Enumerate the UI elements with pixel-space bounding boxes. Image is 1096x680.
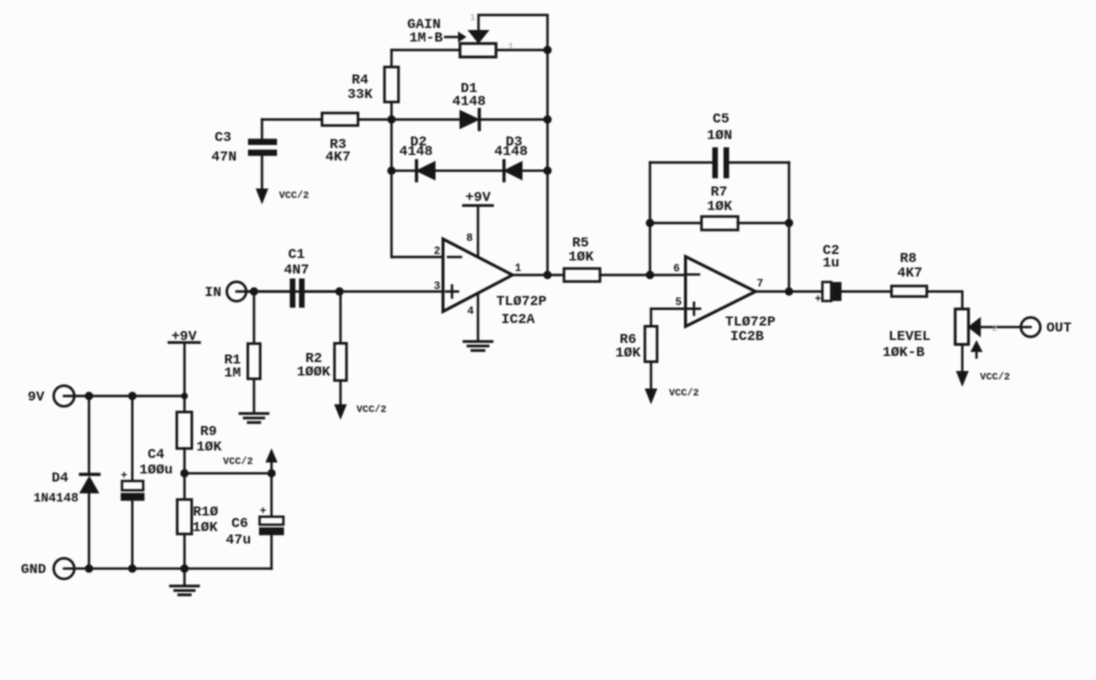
svg-text:7: 7 xyxy=(757,279,764,291)
vcc/2 arrow below C3 xyxy=(256,189,267,203)
svg-text:OUT: OUT xyxy=(1046,321,1071,337)
svg-text:5: 5 xyxy=(675,297,682,309)
plus sign IC2A xyxy=(446,286,458,298)
op-amp U IC2B xyxy=(686,257,756,327)
svg-text:4148: 4148 xyxy=(494,144,528,160)
wire feedback top to C5 xyxy=(650,161,713,163)
svg-text:4148: 4148 xyxy=(399,144,433,160)
resistor R2 xyxy=(339,292,341,344)
svg-text:47N: 47N xyxy=(211,150,236,166)
node junction output stage2 xyxy=(785,287,793,295)
op-amp U IC2A xyxy=(443,239,513,312)
capacitor C2 electrolytic xyxy=(822,282,831,301)
node junction R7 right xyxy=(785,219,793,227)
ground symbol IC2A xyxy=(464,340,492,343)
wire top feedback from gain wiper xyxy=(479,15,548,275)
capacitor C4 electrolytic xyxy=(131,396,133,481)
vcc/2 arrow below LEVEL xyxy=(957,372,968,386)
resistor R10 xyxy=(183,473,185,499)
wire wiper to OUT xyxy=(980,326,1030,328)
wire feedback left vertical xyxy=(649,163,651,276)
label arrow GAIN xyxy=(444,36,458,38)
wire IC2A output xyxy=(513,274,548,276)
svg-text:1: 1 xyxy=(508,42,514,52)
wire left vertical R4 branch xyxy=(390,50,392,257)
svg-text:1ØK-B: 1ØK-B xyxy=(882,345,925,361)
vcc/2 arrow below R6 xyxy=(645,389,656,403)
svg-text:1ØK: 1ØK xyxy=(568,250,594,266)
svg-text:VCC/2: VCC/2 xyxy=(980,372,1010,384)
svg-text:R1Ø: R1Ø xyxy=(193,505,219,521)
svg-text:1ØN: 1ØN xyxy=(707,128,732,144)
svg-text:1ØK: 1ØK xyxy=(192,520,218,536)
wire pot bottom lead xyxy=(961,344,963,371)
resistor R4 xyxy=(385,67,399,102)
junction pot-right on vertical xyxy=(543,46,551,54)
svg-text:4148: 4148 xyxy=(452,94,486,110)
svg-text:9V: 9V xyxy=(28,390,45,406)
svg-text:+9V: +9V xyxy=(171,329,197,345)
capacitor C1 xyxy=(290,279,296,308)
svg-text:8: 8 xyxy=(466,233,473,245)
wire GND rail xyxy=(64,567,272,569)
svg-text:4: 4 xyxy=(467,306,474,318)
svg-text:2: 2 xyxy=(992,324,997,334)
node junction D3 right xyxy=(543,167,551,175)
svg-text:33K: 33K xyxy=(347,87,373,103)
ground symbol bottom xyxy=(183,569,185,586)
svg-text:1ØK: 1ØK xyxy=(615,346,641,362)
potentiometer GAIN body xyxy=(460,44,496,58)
node junction D1 right xyxy=(543,115,551,123)
pin 5 wire xyxy=(651,309,686,327)
node junction R7 left xyxy=(646,219,654,227)
svg-text:VCC/2: VCC/2 xyxy=(223,456,253,468)
vcc/2 arrow below R2 xyxy=(335,405,346,419)
diode D2 xyxy=(392,169,417,171)
node junction D4 top xyxy=(85,392,93,400)
svg-text:1: 1 xyxy=(470,13,476,23)
diode D1 xyxy=(392,118,461,120)
svg-text:IC2B: IC2B xyxy=(730,329,764,345)
svg-text:C3: C3 xyxy=(215,130,232,146)
svg-text:IC2A: IC2A xyxy=(501,312,535,328)
svg-text:+9V: +9V xyxy=(465,190,491,206)
svg-text:1ØK: 1ØK xyxy=(707,199,733,215)
resistor R3 xyxy=(322,113,358,126)
potentiometer LEVEL body xyxy=(955,309,968,344)
resistor R6 xyxy=(645,326,657,361)
svg-text:VCC/2: VCC/2 xyxy=(279,190,309,202)
node junction R1 xyxy=(250,287,258,295)
minus sign IC2A xyxy=(448,256,461,258)
pin 3 wire xyxy=(246,290,443,292)
svg-text:4N7: 4N7 xyxy=(284,263,309,279)
node junction C6 top xyxy=(267,469,275,477)
svg-text:2: 2 xyxy=(434,246,441,258)
resistor R8 xyxy=(892,286,927,297)
potentiometer LEVEL wiper arrow xyxy=(969,318,981,337)
node junction C4 top xyxy=(128,392,136,400)
svg-text:4K7: 4K7 xyxy=(897,266,922,282)
node junction GND symbol xyxy=(180,564,188,572)
svg-text:C4: C4 xyxy=(148,447,165,463)
connector GND xyxy=(54,558,75,579)
node junction R5/feedback xyxy=(646,271,654,279)
pin 2 wire xyxy=(392,256,443,258)
wire D2-D3 xyxy=(435,169,504,171)
vcc/2 up arrow xyxy=(270,462,272,473)
connector OUT xyxy=(1021,317,1040,336)
node junction R2 xyxy=(335,287,343,295)
capacitor C6 electrolytic xyxy=(270,473,272,516)
svg-text:1N4148: 1N4148 xyxy=(33,492,78,506)
svg-text:+: + xyxy=(815,294,822,306)
svg-text:R9: R9 xyxy=(200,424,217,440)
svg-text:VCC/2: VCC/2 xyxy=(669,388,699,400)
svg-text:D4: D4 xyxy=(52,471,69,487)
svg-text:3: 3 xyxy=(434,281,441,293)
ground symbol R1 xyxy=(240,412,268,415)
svg-text:6: 6 xyxy=(673,264,680,276)
node junction D2 left xyxy=(387,167,395,175)
svg-text:1ØØu: 1ØØu xyxy=(139,463,173,479)
wire 9V rail xyxy=(64,395,185,397)
svg-text:1u: 1u xyxy=(823,256,840,272)
svg-text:4K7: 4K7 xyxy=(325,150,350,166)
svg-text:1: 1 xyxy=(515,263,522,275)
node junction D4 bottom xyxy=(85,564,93,572)
connector IN xyxy=(227,282,246,301)
power +9V symbol above IC2A xyxy=(464,204,493,207)
svg-text:C6: C6 xyxy=(231,516,248,532)
capacitor C3 xyxy=(261,120,263,139)
minus sign IC2B xyxy=(688,273,700,275)
diode D4 xyxy=(88,396,90,473)
svg-text:VCC/2: VCC/2 xyxy=(356,404,386,416)
svg-text:TLØ72P: TLØ72P xyxy=(496,294,546,310)
pin 4 ground wire xyxy=(477,293,479,341)
wire IC2B output xyxy=(756,290,823,292)
svg-text:1ØK: 1ØK xyxy=(196,440,222,456)
wire feedback right vertical xyxy=(788,163,790,292)
svg-text:GND: GND xyxy=(21,562,46,578)
node junction R3/R4/D1 xyxy=(387,115,395,123)
svg-text:1M-B: 1M-B xyxy=(409,31,443,47)
plus sign IC2B xyxy=(688,303,700,315)
potentiometer GAIN wiper arrow xyxy=(469,31,489,44)
wire pot left lead xyxy=(392,49,461,51)
svg-text:C1: C1 xyxy=(288,247,305,263)
diode D3 xyxy=(502,161,505,181)
svg-text:C5: C5 xyxy=(713,112,730,128)
wire IN to C1 xyxy=(237,290,291,292)
pot adjust up arrow xyxy=(971,341,982,351)
node junction C4 bottom xyxy=(128,564,136,572)
wire R3 line xyxy=(262,118,392,120)
connector 9V xyxy=(54,386,75,407)
wire pot right lead xyxy=(496,49,548,51)
svg-text:47u: 47u xyxy=(226,533,251,549)
node junction VCC/2 xyxy=(180,469,188,477)
resistor R5 xyxy=(548,274,565,276)
resistor R9 xyxy=(177,412,192,449)
wire VCC/2 net xyxy=(185,472,272,474)
svg-text:1M: 1M xyxy=(224,366,241,382)
node junction output stage1 xyxy=(543,271,551,279)
svg-text:+: + xyxy=(121,471,128,483)
node junction +9V rail xyxy=(181,393,188,400)
power +9V symbol above R9 xyxy=(169,341,200,344)
resistor R7 xyxy=(650,222,702,224)
resistor R1 xyxy=(253,292,255,344)
svg-text:IN: IN xyxy=(205,285,222,301)
svg-text:+: + xyxy=(260,506,267,518)
svg-text:1ØØK: 1ØØK xyxy=(297,365,331,381)
capacitor C5 xyxy=(712,147,718,178)
svg-text:LEVEL: LEVEL xyxy=(888,329,930,345)
